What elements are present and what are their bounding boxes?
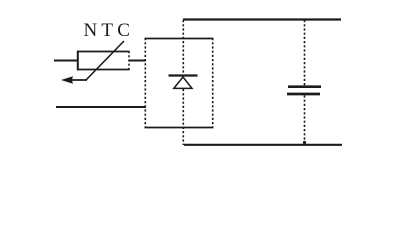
thermistor RT1 diagonal stroke [86, 41, 124, 80]
surge arrester box U1 right edge [212, 38, 214, 128]
thermistor RT1 body bottom edge [77, 69, 130, 71]
wire left input to thermistor [54, 60, 78, 62]
surge arrester box U1 top edge [145, 38, 214, 40]
thermistor RT1 body right edge [128, 51, 130, 70]
surge arrester box U1 bottom edge [145, 127, 214, 129]
wire thermistor to surge box [130, 60, 147, 62]
thermistor RT1 arrowhead [61, 76, 73, 83]
capacitor C1 bottom lead [304, 95, 306, 145]
capacitor C1 bottom plate [287, 93, 320, 96]
svg-text:NTC: NTC [84, 20, 135, 41]
thermistor RT1 foot wire [66, 79, 87, 81]
thermistor RT1 body left edge [77, 51, 79, 71]
diode D1 bottom lead [182, 89, 184, 145]
capacitor C1 top lead [304, 20, 306, 85]
wire bottom-left input to surge box [56, 106, 146, 108]
bottom rail wire [184, 144, 342, 146]
diode D1 triangle [174, 77, 192, 88]
thermistor RT1 body top edge [77, 51, 130, 53]
top rail wire [183, 18, 341, 20]
surge arrester box U1 left edge [144, 38, 146, 128]
capacitor C1 top plate [288, 85, 321, 88]
diode D1 cathode bar [169, 74, 198, 76]
diode D1 top lead [182, 20, 184, 74]
junction dot capacitor bottom [303, 141, 306, 144]
